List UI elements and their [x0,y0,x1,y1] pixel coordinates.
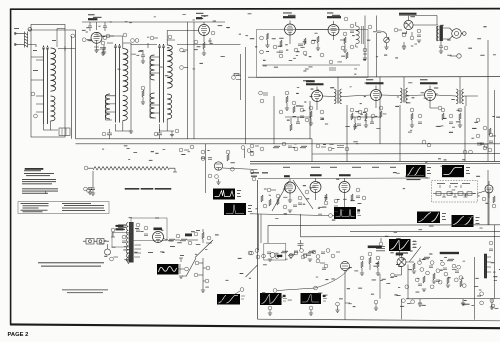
label marks right of W12 [283,295,285,297]
component ref circle [374,300,378,304]
component ref circle [195,261,199,265]
component ref circle [250,152,254,156]
sound det tube V5 [328,25,339,36]
circled part x236 [232,76,236,80]
vertical wire x245.5 [245,47,247,144]
grid/cathode parts under tubes [285,91,289,95]
wire partition [31,29,65,81]
component ref circle [211,31,215,35]
component ref circle [215,175,219,179]
resistor R32 [290,124,292,131]
resistor R1 [168,239,175,241]
resistor R1 [142,90,144,97]
vertical x400 [399,105,401,162]
ground [201,290,205,292]
curve to W11 [218,291,240,302]
waveform box W2 [442,165,464,177]
component ref circle [292,101,296,105]
vertical x268 [267,225,269,243]
wires in box [290,30,334,45]
resistor R7 [346,52,348,59]
extra speck texture [86,12,497,304]
T2 winding lower [123,96,128,121]
ground [309,313,313,315]
wire y236.6 [300,235,500,238]
component ref circle [430,285,434,289]
marks right of W9 [413,240,417,243]
component ref circle [205,279,209,283]
verticals below horiz wire [345,299,492,320]
marks right of W3 [237,189,241,192]
left column parts [344,17,348,21]
component ref circle [309,306,313,310]
component ref circle [168,35,172,39]
grid cap [87,39,92,41]
fine tuning small box [59,128,70,136]
resistor R16 [442,113,444,120]
waveform box W1 [406,165,426,177]
vertical x347 [346,105,348,162]
discriminator transformer T5 [356,22,363,47]
component ref circle [368,252,372,256]
component ref circle [436,269,440,273]
waveform box W11 [217,294,240,305]
T1 bottom wires [44,121,59,130]
page border top [10,8,500,11]
component ref circle [405,285,409,289]
strip wiring [323,95,479,97]
T2 top connects [123,43,131,49]
1st video IF tube V7 [312,91,323,102]
component ref circle [273,289,277,293]
long verticals row2 down [274,40,488,162]
cluster top right [241,146,245,150]
row of parts right of tube [163,239,168,241]
component ref circle [260,50,264,54]
circled refs top right [131,39,135,43]
notes text lines [24,169,41,172]
page border bottom [10,324,500,328]
component ref circle [324,201,328,205]
tiny value-label speck texture [82,16,500,309]
capacitor [293,205,297,207]
component ref circle [316,144,320,148]
ground [129,131,133,133]
horiz osc tube V16 [341,262,350,271]
component ref circle [208,174,212,178]
ground [102,52,106,54]
plate wire [82,22,225,30]
label SYNC SEP [284,175,290,177]
vertical x312 step [311,139,313,162]
label SOUND DET [327,16,341,18]
component ref circle [240,288,244,292]
sync area corner labels [251,172,268,176]
component ref circle [391,273,395,277]
component ref circle [275,255,279,259]
resistor R23 [493,196,495,203]
label AUDIO OUTPUT [399,13,417,15]
resistor R31 [489,128,491,135]
ground [216,182,220,184]
sound IF tube V4 [285,24,296,35]
ground [170,135,174,137]
trap coil under peaking line [87,171,96,195]
resistor R90 [261,195,263,202]
resistor R21 [325,194,327,201]
bottom small parts under wire [418,299,422,303]
waveform box W10 sine [157,264,179,275]
tuner tiny labels [14,28,200,256]
ground [422,289,426,291]
label VERT OSC [339,174,351,176]
2nd video IF tube V8 [371,90,382,101]
resistor R12 [351,113,353,120]
component ref circle [488,148,492,152]
vertical x205.5 [205,144,207,193]
vert out tube V15 [485,185,493,193]
tuner box internal details [31,29,70,136]
component ref circle [101,41,105,45]
T3 taps left [150,57,160,113]
vert osc box [131,218,167,241]
component ref circle [491,304,495,308]
component ref circle [263,204,267,208]
component ref circle [341,46,345,50]
resistor R10 [293,106,295,113]
component ref circle [358,110,362,114]
resistor R24 [361,261,363,268]
svg-text:PAGE 2: PAGE 2 [8,332,29,338]
ground [309,123,313,125]
ground [141,61,145,63]
ground [343,50,347,52]
vert osc tube V14 [339,182,350,193]
component ref circle [427,143,431,147]
component ref circle [201,157,205,161]
component ref circle [111,228,115,232]
resistor R28 [433,273,435,280]
ground [141,102,145,104]
component ref circle [402,33,406,37]
T3 bottom parts [160,119,175,131]
cap under xfmr [439,41,448,53]
right column extra parts [463,96,491,225]
ground [364,125,368,127]
component ref circle [282,142,286,146]
phase det box [264,244,286,261]
coil winding [150,55,155,80]
ground [101,53,105,55]
vertical x488 [487,40,489,162]
6S4 label [154,228,163,231]
resistor R7 [300,146,307,148]
tube top leads [290,21,334,25]
ground [335,310,339,312]
3rd video IF tube V9 [425,90,436,101]
component ref circle [476,118,480,122]
mixer grid cap C1 [58,46,76,51]
resistor R19 [202,232,204,239]
resistor R4 [423,257,430,259]
diagonal wire [195,240,213,258]
RF coil T1 slugs [42,46,48,125]
component ref circle [441,108,445,112]
swoop wire to B12 [277,269,348,291]
T3 slugs [158,44,164,123]
ground [363,58,367,60]
component ref circle [110,257,114,261]
component ref circle [469,150,473,154]
component ref circle [350,108,354,112]
ground [316,48,320,50]
ground [446,285,450,287]
ground [308,259,312,261]
component ref circle [422,140,426,144]
resistor R4 [280,40,282,47]
component ref circle [444,46,448,50]
component ref circle [311,40,315,44]
ground [91,193,95,195]
component ref circle [379,106,383,110]
resistor R11 [310,111,312,118]
component ref circle [328,147,332,151]
T2 left secondary winding [106,55,155,119]
component ref circle [305,190,309,194]
component ref circle [415,278,419,282]
component ref circle [457,265,461,269]
W9 leads [399,251,401,257]
bus parts right pair [422,140,431,147]
ground [88,192,92,194]
component ref circle [364,108,368,112]
component ref circle [252,177,256,181]
component ref circle [194,40,198,44]
ground [285,108,289,110]
horiz out tube V17 [397,258,406,267]
resistor R8 [281,251,288,253]
component ref circle [484,144,488,148]
wire y178.5 [258,177,430,180]
inter-tube parts [267,188,271,192]
wires above tubes [290,178,345,182]
right dark bar [484,254,486,278]
small parts above bus at x105,155 [102,132,106,136]
diagonal lower right [410,247,422,262]
RF coil T1 winding upper [51,48,56,91]
component ref circle [490,299,494,303]
parts row above [250,251,254,255]
4.5MC trap label + box [112,225,129,247]
component ref circle [430,261,434,265]
component ref circle [250,144,254,148]
balun coil [25,32,28,48]
resistors in grid [413,263,415,270]
marks right of W7 [442,212,446,215]
component ref circle [84,187,88,191]
vertical wires [376,16,378,78]
component ref circle [426,271,430,275]
component ref circle [303,51,307,55]
caps mid (x139-149) [131,43,148,131]
wire y231.5 [350,230,500,232]
ground [432,281,436,283]
component ref circle [492,204,496,208]
component ref circle [462,284,466,288]
waveform box W9 [389,239,411,251]
resistor R27 [423,276,425,283]
long wire bus A1 [76,138,313,140]
resistor R26 [377,261,379,268]
1st IF tube V3 [199,25,210,36]
component ref circle [480,292,484,296]
dense parts row above horiz osc [248,249,340,316]
coupling cap [373,31,387,34]
component ref circle [206,266,210,270]
audio output transformer T6 [437,26,450,42]
IF feed parts row [106,33,240,44]
T3 winding upper [167,45,172,88]
vertical x380 [379,77,381,144]
HORIZ label text [368,246,382,248]
component ref circle [256,255,260,259]
4.5MC label [306,80,315,82]
component ref circle [476,134,480,138]
audio output tube V6 [404,16,413,30]
component ref circle [301,255,305,259]
sound section box [257,30,369,78]
vertical wires [494,90,496,162]
waveform box W8 [452,215,474,227]
resistor R2 [180,239,187,241]
cathode parts [94,43,99,50]
component ref circle [194,232,198,236]
small parts above [88,22,92,31]
verticals x258.5 x261 [259,214,262,250]
diagonal into left border area [246,265,258,277]
component ref circle [314,286,318,290]
sync area lower parts [261,195,297,212]
diagonals [272,181,289,211]
component ref circle [262,254,266,258]
component ref circle [458,108,462,112]
resistor R2 [203,42,205,49]
resistor R3 [266,33,268,40]
resistor R29 [447,277,449,284]
component ref circle [449,114,453,118]
vertical from tube down [345,275,350,303]
component ref circle [482,197,486,201]
component ref circle [106,34,110,38]
component ref circle [320,53,324,57]
ground [439,51,443,53]
vertical wire x187.5 [187,22,189,139]
cluster [316,259,320,263]
ground [268,259,272,261]
resistor R17 [459,113,461,120]
waveform box W3 [213,189,235,200]
component ref circle [309,106,313,110]
IF coil L3 [456,89,464,104]
component ref circle [334,199,338,203]
screen cap [208,38,212,44]
component ref circle [454,278,458,282]
circled resistor R7 [141,86,145,90]
ground [384,47,388,49]
vertical x274 [273,96,275,144]
arrows T1 [45,191,47,194]
right edge parts [489,133,493,137]
bias line [130,43,132,131]
component ref circle [122,235,126,239]
long wire bus B2 [250,163,500,165]
T3 winding lower [167,94,172,119]
label MIXER OSC [88,18,97,20]
component ref circle [300,249,304,253]
component ref circle [324,264,328,268]
component ref circle [356,188,360,192]
component ref circle [357,116,361,120]
component ref circle [410,36,414,40]
resistor R33 [354,123,356,130]
resistor R22 [351,194,353,201]
resistor R91 [269,199,271,206]
component ref circle [441,262,445,266]
component ref circle [331,254,335,258]
parts right of sine box [202,258,204,290]
resistor R25 [369,257,371,264]
plate to transformer [413,16,438,26]
waveform box W13 [301,293,322,304]
component ref circle [144,226,148,230]
ground [265,45,269,47]
speaker LS1 [450,28,467,39]
component ref circle [260,147,264,151]
tuner box [31,25,65,138]
IF coil L1 [334,89,342,104]
ground [202,53,206,55]
component ref circle [190,145,194,149]
component ref circle [483,146,487,150]
component ref circle [489,241,493,245]
VERT HOLD text [376,246,385,251]
top right tube small [457,54,461,58]
vert hold parts [379,242,383,246]
circled ref [103,36,107,40]
ground [288,210,292,212]
vertical x420 [380,258,420,299]
component ref circle [279,54,283,58]
component ref circle [371,114,375,118]
T2 slugs [114,44,120,123]
component ref circle [154,132,158,136]
resistor R3 [288,254,295,256]
ground [376,273,380,275]
label 2ND VIDEO IF [366,82,384,84]
component ref circle [312,250,316,254]
component ref circle [176,234,180,238]
node circle [28,28,32,32]
wire down from xfmr [126,255,131,260]
component ref circle [150,36,154,40]
ground [458,125,462,127]
vertical wire x194 [193,22,195,139]
component ref circle [185,267,189,271]
W5 connection wire [250,214,326,216]
vert osc tube V11 [153,232,164,243]
marks right of W1 [427,166,431,169]
component ref circle [279,110,283,114]
